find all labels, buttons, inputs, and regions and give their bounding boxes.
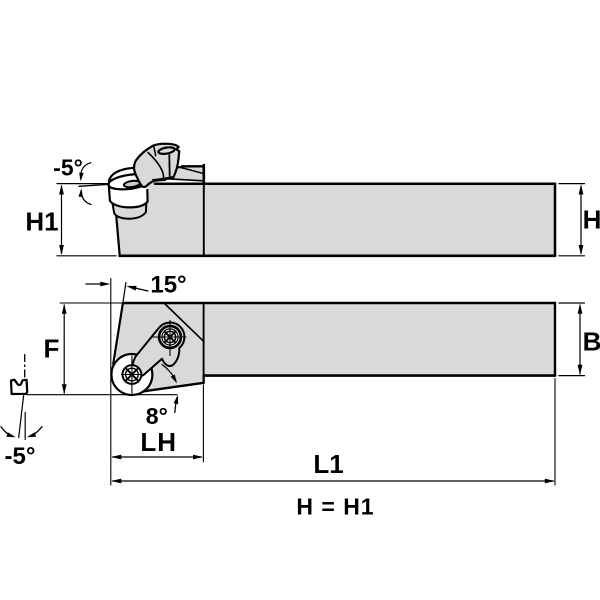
- H top extension line: [559, 183, 585, 185]
- round insert RCMT (side view, white cylinder): [109, 184, 148, 207]
- 15 deg right arrow: [133, 288, 148, 292]
- svg-text:H1: H1: [25, 207, 58, 237]
- svg-text:L1: L1: [313, 449, 343, 479]
- clamp screw (plan view): [159, 326, 181, 348]
- white sliver between head top-face near edge and shank top edge: [158, 179, 203, 182]
- 15 deg left arrow: [86, 283, 104, 285]
- white wedge above insert back rim: [109, 168, 142, 182]
- head 15 deg lead edge (plan view): [113, 303, 123, 364]
- LH dimension line: [113, 456, 202, 458]
- svg-text:H: H: [583, 205, 600, 235]
- svg-text:H = H1: H = H1: [296, 494, 374, 520]
- F bottom extension line: [27, 394, 178, 396]
- svg-text:15°: 15°: [150, 272, 186, 299]
- B top extension line: [559, 302, 585, 304]
- svg-text:LH: LH: [140, 427, 177, 457]
- shank top edge (side view): [155, 182, 555, 185]
- shim / anvil under insert (side view): [112, 203, 146, 219]
- H dimension line: [580, 186, 582, 254]
- clamp arm crease: [148, 153, 164, 178]
- B dimension line: [579, 305, 581, 374]
- clamp hole: [158, 146, 175, 155]
- svg-text:8°: 8°: [146, 403, 168, 429]
- -5 deg arc arrow upper: [80, 163, 90, 179]
- clamp-insert contact marks: [154, 178, 166, 181]
- shank bottom edge (side view): [120, 254, 555, 257]
- L1 right extension line: [554, 379, 556, 486]
- clamp barrel front split line: [168, 155, 170, 178]
- H1 bottom extension line: [57, 255, 116, 257]
- -5 deg detail left arc arrow: [1, 427, 11, 436]
- toolholder body (side view): [112, 166, 555, 256]
- 8 deg lower arrow: [175, 398, 177, 413]
- svg-text:B: B: [583, 327, 600, 357]
- head bottom 8 deg edge (plan view): [144, 383, 204, 392]
- -5 deg rake reference line (side view): [79, 184, 109, 186]
- head far top edge (side view): [109, 167, 182, 181]
- clamp (side view): [134, 144, 179, 187]
- toolholder body (plan view): [114, 303, 556, 391]
- F dimension line: [63, 305, 65, 393]
- insert edge profile polygon: [11, 380, 27, 394]
- 15 deg extension of lead edge: [123, 283, 126, 304]
- -5 deg arc arrow lower: [81, 192, 91, 205]
- head top edge at step: [182, 166, 204, 167]
- shank right edge (side view): [554, 184, 557, 256]
- vertical reference of -5 deg detail: [24, 413, 26, 440]
- insert hole: [123, 180, 140, 188]
- H bottom extension line: [559, 255, 585, 257]
- F top extension line: [60, 302, 122, 304]
- insert edge profile slanted axis: [19, 387, 25, 438]
- pocket diagonal line (plan view): [164, 303, 204, 341]
- svg-text:F: F: [44, 334, 60, 364]
- L1 dimension line: [113, 480, 554, 482]
- clamp rim-left crease: [154, 147, 156, 156]
- 8 deg upper arrow: [162, 365, 176, 381]
- svg-text:-5°: -5°: [5, 443, 36, 470]
- round insert (plan view): [111, 354, 152, 395]
- pocket back line (side view): [182, 168, 202, 173]
- head front clearance edge (side view): [111, 180, 120, 255]
- insert edge profile detail centerline: [24, 355, 26, 382]
- svg-text:-5°: -5°: [53, 155, 83, 181]
- top face near edge (side view): [157, 178, 203, 181]
- B bottom extension line: [559, 375, 585, 377]
- -5 deg detail right arc arrow: [32, 427, 43, 436]
- LH right extension line: [202, 385, 204, 462]
- H1 top extension line: [57, 183, 108, 185]
- head end boundary line (plan view): [203, 303, 205, 383]
- plan view outline strokes: [123, 302, 555, 304]
- step vertical / head-shank boundary: [203, 165, 206, 184]
- insert top face ellipse: [108, 172, 153, 192]
- H1 dimension line: [61, 186, 63, 254]
- vertical reference line (left of plan view): [110, 279, 112, 486]
- insert screw (plan view): [122, 365, 141, 384]
- clamp (plan view): [132, 323, 184, 378]
